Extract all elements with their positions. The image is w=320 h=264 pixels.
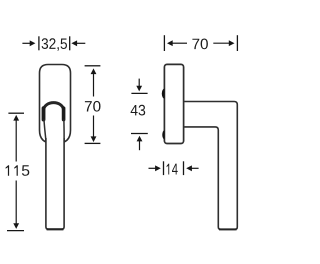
- dim 70L text: [85, 101, 101, 112]
- dim 14 left arrow: [149, 167, 158, 169]
- dim 14 left bar: [163, 161, 165, 175]
- dim 70L bottom bar: [85, 142, 101, 144]
- dim 70R text: [192, 39, 208, 50]
- dim 32,5 right extension bar: [69, 36, 71, 50]
- dim 32,5 text: [42, 38, 67, 51]
- dim 14 right bar: [183, 161, 185, 175]
- dim 70R right bar: [236, 35, 238, 51]
- lever front: [46, 138, 64, 229]
- dim 70L down arrow: [93, 116, 95, 140]
- dim 70L up arrow: [91, 68, 97, 74]
- dim 43 bottom bar: [131, 133, 148, 135]
- dim 115 top bar: [8, 112, 24, 114]
- dim 14 text: [167, 164, 178, 175]
- neck to lever transition left: [44, 120, 46, 143]
- dim 115 down arrow: [15, 181, 17, 226]
- dim 32,5 left extension bar: [38, 36, 40, 50]
- dim 14 right arrow: [186, 165, 192, 171]
- rosette plate front: [40, 65, 71, 144]
- rosette plate side: [164, 64, 183, 143]
- dim 70R right arrow: [213, 42, 230, 44]
- lever side bottom edge emphasis: [219, 228, 237, 230]
- dim 70R left bar: [163, 35, 165, 51]
- dim 70L top bar: [85, 65, 101, 67]
- dim 115 text: [6, 165, 30, 176]
- screw bump bottom: [162, 130, 164, 140]
- dim 115 up arrow: [13, 115, 19, 121]
- lever front bottom edge emphasis: [47, 228, 64, 230]
- dim 43 bottom arrow (outside, pointing up): [137, 136, 143, 142]
- dim 43 top arrow (outside, pointing down): [138, 79, 140, 87]
- dim 43 top bar: [131, 92, 147, 94]
- handle neck arc (thick): [44, 103, 64, 120]
- dim 115 bottom bar: [7, 230, 24, 232]
- dim 32,5 left arrow: [22, 42, 31, 44]
- neck to lever transition right: [63, 120, 65, 143]
- dim 32,5 right arrow: [71, 40, 77, 46]
- dim 70R left arrow: [167, 40, 173, 46]
- dim 43 text: [131, 105, 146, 116]
- screw bump top: [162, 89, 165, 99]
- side blobs of neck: [42, 108, 46, 119]
- neck + lever side contour: [184, 102, 237, 230]
